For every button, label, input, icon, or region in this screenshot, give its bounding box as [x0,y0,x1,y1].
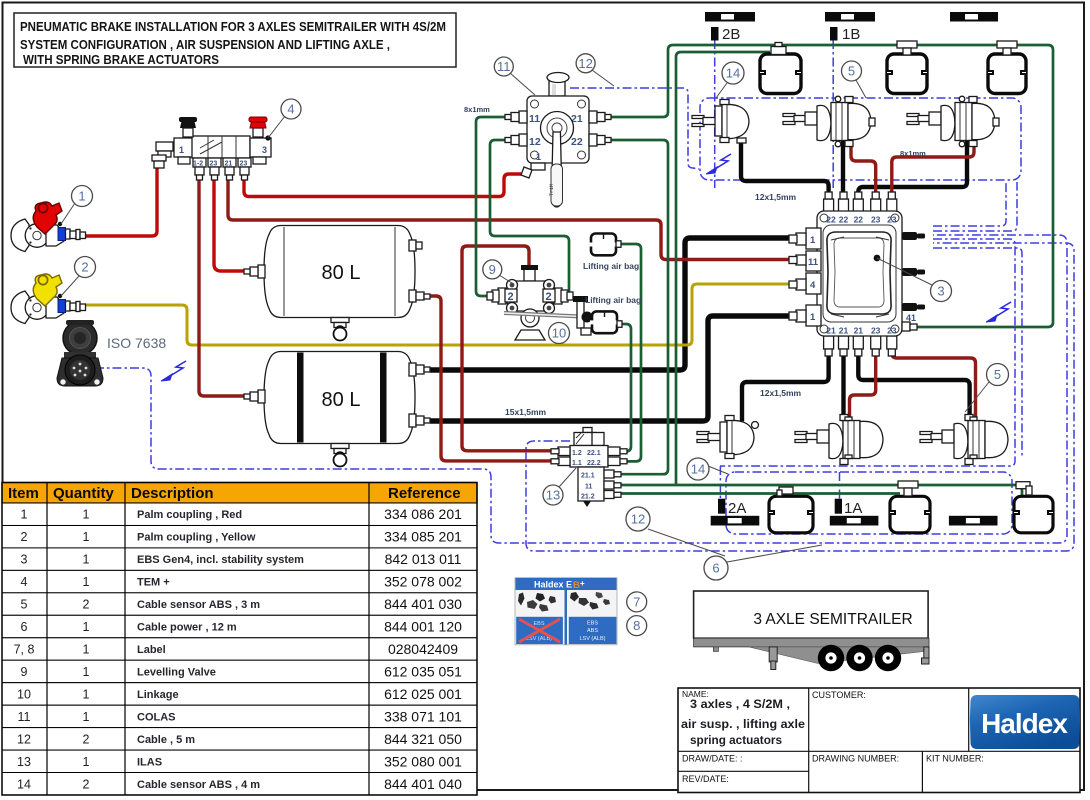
wire: green COLAS 11 to levelling valve left [476,117,512,296]
svg-text:1: 1 [83,508,90,522]
wire: actuator C service to EBS 22 [858,141,967,196]
svg-text:23: 23 [871,215,881,225]
lifting air bag 2 icon [590,311,622,333]
wire: maroon levelling valve to ILAS 1.2 [462,246,586,451]
svg-text:ISO 7638: ISO 7638 [107,335,166,351]
wire: yellow control coupling2 to EBS port 4 [84,284,792,345]
rear air bag 6 [1014,482,1053,533]
svg-text:1: 1 [810,235,816,246]
svg-text:Quantity: Quantity [53,485,114,502]
wire: green COLAS 12 to levelling valve right [490,140,569,296]
callout 13 [543,468,576,505]
svg-text:21: 21 [225,161,233,168]
cable bundle line c [720,239,1015,466]
wire: maroon actuator B spring to EBS 23 [851,141,876,196]
wire: maroon actuator C spring to EBS 23 [892,141,974,196]
svg-text:TEM +: TEM + [137,577,170,589]
front axle air bag B2 [887,41,927,94]
svg-text:EBS Gen4, incl. stability syst: EBS Gen4, incl. stability system [137,554,304,566]
svg-text:8x1mm: 8x1mm [900,149,926,158]
svg-text:Lifting air bag: Lifting air bag [585,295,641,305]
svg-text:3 AXLE SEMITRAILER: 3 AXLE SEMITRAILER [753,611,912,628]
svg-text:9: 9 [21,665,28,679]
svg-text:14: 14 [691,462,705,477]
svg-text:3: 3 [21,553,28,567]
svg-text:13: 13 [17,755,31,769]
svg-text:1-2: 1-2 [193,161,203,168]
wire: green COLAS 21 to EBS 41 via top right [606,45,1053,327]
svg-text:2: 2 [83,777,90,791]
air tank 2 (80 L) [244,352,430,467]
callout 1 [61,186,93,225]
callout 5 right [965,364,1009,413]
wire: green T-drop to rear air bag 5 [907,485,910,497]
svg-text:1: 1 [78,189,85,204]
air tank 1 (80 L) [244,226,430,341]
EBS Gen4 unit (item 3) [789,192,925,356]
svg-text:23: 23 [871,326,881,336]
svg-text:spring actuators: spring actuators [690,735,782,747]
svg-text:Linkage: Linkage [137,689,179,701]
svg-text:Lifting air bag: Lifting air bag [583,261,639,271]
svg-text:NAME:: NAME: [682,689,709,699]
callout 7 [627,592,647,612]
wire: actuator B service to EBS 22 [841,141,845,196]
svg-text:22.1: 22.1 [587,450,601,457]
callout 12 bottom [626,507,725,556]
svg-text:3: 3 [937,284,944,299]
svg-text:22.2: 22.2 [587,460,601,467]
svg-text:21.1: 21.1 [581,473,595,480]
svg-text:1: 1 [83,755,90,769]
ABS exciter bar 2A [711,499,760,526]
callout 14 bottom [687,458,728,480]
wire: green T-drop to air bag B2 top [906,45,909,54]
svg-text:11: 11 [585,484,593,491]
svg-text:Palm coupling , Red: Palm coupling , Red [137,509,242,521]
svg-text:ILAS: ILAS [137,756,162,768]
svg-text:COLAS: COLAS [137,711,176,723]
ILAS valve (item 13) [551,428,627,508]
svg-text:2: 2 [83,732,90,746]
svg-text:14: 14 [726,66,740,81]
svg-text:8: 8 [633,618,640,633]
svg-text:1: 1 [83,530,90,544]
svg-text:1.2: 1.2 [572,450,582,457]
callout 4 [268,99,301,138]
svg-text:Cable sensor ABS , 4 m: Cable sensor ABS , 4 m [137,779,260,791]
svg-text:13: 13 [546,488,560,503]
svg-text:Description: Description [131,485,214,502]
svg-text:SYSTEM CONFIGURATION , AIR SU: SYSTEM CONFIGURATION , AIR SUSPENSION AN… [20,37,390,52]
svg-text:23: 23 [210,161,218,168]
svg-text:CUSTOMER:: CUSTOMER: [812,690,866,700]
sensor 1A dashed drop [839,472,841,500]
svg-text:22: 22 [826,215,836,225]
label sticker items 7/8 [515,578,617,645]
svg-text:1: 1 [83,665,90,679]
svg-text:2: 2 [546,291,552,303]
svg-text:80 L: 80 L [322,389,361,411]
svg-text:DRAW/DATE: :: DRAW/DATE: : [682,754,743,764]
palm coupling red (item 1) [11,202,86,252]
svg-text:REV/DATE:: REV/DATE: [682,774,729,784]
svg-text:12x1,5mm: 12x1,5mm [760,388,802,398]
title block [678,688,1080,793]
cable 12 segment from COLAS [570,88,699,169]
rear air bag 4 [769,487,813,533]
svg-text:10: 10 [552,326,566,341]
svg-text:8x1mm: 8x1mm [464,105,490,114]
svg-text:334 086 201: 334 086 201 [384,506,462,522]
svg-text:334 085 201: 334 085 201 [384,529,462,545]
svg-text:1: 1 [21,508,28,522]
sensor 2A dashed drop [719,466,721,500]
svg-text:15x1,5mm: 15x1,5mm [505,407,547,417]
svg-text:2: 2 [81,260,88,275]
wire: red TEM 23 to COLAS port 1 [244,174,521,197]
TEM+ valve (item 4) [152,117,271,180]
wire: red coupling1 to TEM port 1 [84,166,157,236]
cable bundle line d [933,248,1022,458]
svg-text:12: 12 [578,56,592,71]
svg-text:1: 1 [83,620,90,634]
svg-text:10: 10 [17,687,31,701]
svg-text:1.1: 1.1 [572,460,582,467]
svg-text:12: 12 [17,732,31,746]
svg-text:1: 1 [179,145,184,155]
callout 10 [549,323,570,344]
cable 14 box around rear axle group [726,472,1012,534]
callout 6 [704,545,822,580]
wire: red TEM 23 to tank1 left port [214,180,250,271]
ABS exciter bar 1A [830,499,879,526]
sensor 1B dashed drop [832,40,834,188]
callout 14 top [716,62,744,98]
wire: green T-drop to air bag B3 top [1006,45,1009,54]
cable bundle line a [933,182,1006,226]
ISO 7638 connector [57,320,103,386]
lightning arrow at ISO [170,361,186,376]
svg-text:5: 5 [848,64,855,79]
wire: EBS 21 to actuator F service [858,350,969,419]
svg-text:Reference: Reference [388,485,461,502]
svg-text:2A: 2A [728,500,746,517]
svg-text:6: 6 [712,561,719,576]
svg-text:028042409: 028042409 [388,641,458,657]
svg-text:7: 7 [633,594,640,609]
svg-text:5: 5 [21,598,28,612]
cable 6 power: ISO 7638 to right loop [95,235,1067,543]
svg-text:14: 14 [17,777,31,791]
wire: maroon TEM 1-2 to tank2 left port [199,180,250,396]
Haldex logo [970,695,1080,749]
wire: green air bag B1 top loop [676,52,770,485]
wire: EBS 21 to actuator D service (12x1,5mm) [742,350,829,419]
svg-text:1: 1 [536,152,541,162]
front actuator A (single) [692,100,749,144]
svg-text:Palm coupling , Yellow: Palm coupling , Yellow [137,532,256,544]
svg-text:1: 1 [83,643,90,657]
front axle air bag B3 [988,41,1026,94]
svg-text:5: 5 [994,367,1001,382]
svg-text:1: 1 [83,553,90,567]
front actuator B (spring brake) [783,96,875,147]
svg-text:2B: 2B [722,26,740,43]
svg-text:1B: 1B [842,26,860,43]
lightning arrow right side [995,302,1011,317]
wire: maroon EBS 23 to actuator F spring [892,350,976,419]
svg-text:WITH SPRING BRAKE ACTUATORS: WITH SPRING BRAKE ACTUATORS [23,52,219,67]
ABS exciter bar 2B [705,12,755,43]
palm coupling yellow (item 2) [11,274,86,324]
rear actuator D (single) [697,416,759,459]
svg-text:LSV (ALB): LSV (ALB) [580,636,606,642]
svg-text:1: 1 [810,312,816,323]
trailer drawing [694,591,929,671]
wire: maroon EBS 23 to actuator E spring [850,350,876,419]
wire: green drop to rear air bag 4 [785,494,788,498]
svg-text:1: 1 [83,710,90,724]
lightning arrow front axle [715,154,731,169]
svg-text:352 078 002: 352 078 002 [384,574,462,590]
svg-text:23: 23 [240,161,248,168]
svg-text:Cable power , 12 m: Cable power , 12 m [137,622,237,634]
svg-text:23: 23 [887,326,897,336]
rear actuator E (spring brake) [795,415,883,465]
rear air bag 5 [890,481,930,533]
svg-text:22: 22 [854,215,864,225]
svg-text:B: B [573,580,580,591]
svg-text:3 axles , 4 S/2M ,: 3 axles , 4 S/2M , [690,699,790,711]
svg-text:+: + [580,579,585,588]
svg-text:12: 12 [631,512,645,527]
svg-text:21.2: 21.2 [581,494,595,501]
rear actuator F (spring brake) [920,415,1008,465]
svg-text:11: 11 [18,710,31,724]
svg-text:22: 22 [571,136,583,148]
svg-text:22: 22 [839,215,849,225]
ABS exciter bar bottom right [949,516,998,526]
callout 2 [61,257,96,297]
wire: green COLAS 22 to ILAS 21.1 [606,140,668,474]
svg-text:KIT NUMBER:: KIT NUMBER: [926,754,984,764]
cable 13 loop around ILAS [526,243,1074,551]
svg-text:844 001 120: 844 001 120 [384,619,462,635]
svg-text:844 401 040: 844 401 040 [384,776,462,792]
svg-text:3: 3 [262,145,267,155]
svg-text:Levelling Valve: Levelling Valve [137,667,216,679]
svg-text:12: 12 [529,136,541,148]
svg-text:21: 21 [826,326,836,336]
parts table [2,483,477,796]
svg-text:EBS: EBS [533,621,544,627]
svg-text:ABS: ABS [587,628,598,634]
svg-text:612 035 051: 612 035 051 [384,664,462,680]
svg-text:41: 41 [906,313,916,323]
svg-text:2: 2 [21,530,28,544]
svg-text:air susp. , lifting axle: air susp. , lifting axle [681,719,805,731]
wire: supply tank2 upper to EBS port 1 top (15x1,5mm) [433,238,792,370]
ABS exciter bar 1B [825,12,875,43]
svg-text:612 025 001: 612 025 001 [384,686,462,702]
callout 3 [877,258,952,302]
levelling valve (item 9) [487,265,593,340]
svg-text:352 080 001: 352 080 001 [384,753,462,769]
svg-text:2: 2 [508,291,514,303]
svg-text:844 401 030: 844 401 030 [384,596,462,612]
svg-text:21: 21 [854,326,864,336]
svg-text:842 013 011: 842 013 011 [385,551,462,567]
svg-text:4: 4 [21,575,28,589]
svg-text:Cable , 5 m: Cable , 5 m [137,734,195,746]
svg-text:338 071 101: 338 071 101 [384,708,462,724]
callout 9 [483,260,512,283]
wire: maroon TEM 21 to EBS port 11 [228,180,792,260]
blue dashed cable lines [95,40,1074,551]
sensor 2B dashed drop [714,40,716,188]
svg-text:DRAWING NUMBER:: DRAWING NUMBER: [812,754,899,764]
cable bundle line b [933,182,1017,231]
svg-text:4: 4 [287,102,294,117]
callout 12 top [576,54,614,86]
wire: EBS 21 to actuator E service [841,350,845,419]
callout 5 top [842,61,867,98]
front actuator C (spring brake) [907,96,999,147]
COLAS valve (item 11) [505,73,611,208]
svg-text:EBS: EBS [587,621,598,627]
svg-text:21: 21 [839,326,849,336]
svg-text:Item: Item [8,485,39,502]
svg-text:23: 23 [887,215,897,225]
svg-text:11: 11 [529,113,540,125]
wire: green ILAS 21.2 rear line [608,492,900,495]
svg-text:Label: Label [137,644,166,656]
wire: green lifting air bag 2 to ILAS 22.1 [610,324,631,451]
svg-text:1A: 1A [844,500,862,517]
wire: green lifting air bag 1 to ILAS 22.2 [612,244,641,461]
svg-text:11: 11 [808,257,819,268]
svg-text:Haldex: Haldex [981,708,1068,739]
svg-text:TriM: TriM [549,184,555,196]
svg-text:11: 11 [497,59,511,74]
svg-text:2: 2 [83,598,90,612]
wire: maroon tank1 right port to ILAS 1.1 [428,296,586,461]
title box [14,13,456,67]
svg-text:9: 9 [489,262,496,277]
svg-text:Haldex E: Haldex E [534,580,572,590]
svg-text:12x1,5mm: 12x1,5mm [755,192,797,202]
front axle air bag B1 [760,43,801,94]
svg-text:6: 6 [21,620,28,634]
svg-text:Cable sensor ABS , 3 m: Cable sensor ABS , 3 m [137,599,260,611]
callout 8 [627,616,647,636]
callout 11 [494,57,535,95]
svg-text:80 L: 80 L [322,262,361,284]
svg-text:844 321 050: 844 321 050 [384,731,462,747]
svg-text:PNEUMATIC BRAKE INSTALLATION F: PNEUMATIC BRAKE INSTALLATION FOR 3 AXLES… [20,19,446,34]
svg-text:1: 1 [83,575,90,589]
wire: green ILAS 11 to rear air bag 6 [608,485,1022,497]
lifting air bag 1 icon [589,234,621,256]
wire: actuator A service to EBS 22 (12x1,5mm) [741,140,829,196]
cable 12 box around front axle group [700,98,1021,180]
svg-text:4: 4 [810,280,816,291]
svg-text:1: 1 [83,687,90,701]
svg-text:7, 8: 7, 8 [14,643,35,657]
ABS exciter bar top right [950,12,998,22]
wire: supply tank2 lower to EBS port 1 bottom (15x1,5mm) [433,316,792,421]
